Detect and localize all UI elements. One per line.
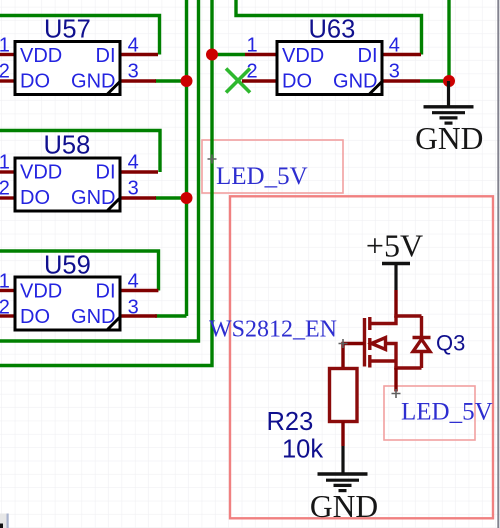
svg-text:VDD: VDD xyxy=(282,45,324,67)
svg-text:DI: DI xyxy=(96,45,116,67)
svg-text:R23: R23 xyxy=(267,408,314,436)
Q3 body diode xyxy=(420,316,423,338)
svg-text:U63: U63 xyxy=(309,16,356,44)
wire R23 to GND xyxy=(341,422,344,447)
svg-text:WS2812_EN: WS2812_EN xyxy=(209,317,337,343)
svg-text:3: 3 xyxy=(128,178,139,200)
Q3 channel segment top xyxy=(368,317,371,330)
svg-text:LED_5V: LED_5V xyxy=(216,163,308,190)
junction at U58 pin 3 xyxy=(181,192,193,204)
svg-text:1: 1 xyxy=(0,34,10,56)
svg-text:U58: U58 xyxy=(44,132,91,160)
wire U57 DI net, exits left edge, corner down to pin 4 xyxy=(0,16,160,55)
net label LED_5V top box xyxy=(202,140,343,193)
wire +5V to Q3 source xyxy=(394,290,397,318)
svg-text:1: 1 xyxy=(0,151,10,173)
wire vertical bus 2, corner exits left edge xyxy=(0,0,199,341)
U59 corner notch xyxy=(107,317,120,330)
svg-text:GND: GND xyxy=(71,306,115,328)
Q3 source terminal xyxy=(370,316,396,324)
IC U58 xyxy=(0,132,158,212)
svg-text:1: 1 xyxy=(247,35,258,57)
svg-text:2: 2 xyxy=(0,60,10,82)
svg-text:4: 4 xyxy=(128,152,139,174)
bottom-left UI fragment xyxy=(0,514,9,528)
wire Q3 gate to R23 xyxy=(343,344,365,369)
net label LED_5V bottom box and text xyxy=(384,386,493,440)
power symbol +5V xyxy=(366,228,423,291)
Q3 top bar to body diode xyxy=(394,314,421,317)
svg-text:3: 3 xyxy=(128,297,139,319)
IC U57 xyxy=(0,16,158,95)
svg-text:GND: GND xyxy=(415,121,483,156)
svg-text:DO: DO xyxy=(20,306,50,328)
svg-text:4: 4 xyxy=(128,35,139,57)
U63 pin 1 stub xyxy=(245,53,277,56)
svg-text:4: 4 xyxy=(389,35,400,57)
svg-text:U59: U59 xyxy=(44,252,91,280)
svg-text:GND: GND xyxy=(310,489,378,524)
U59 body xyxy=(15,277,120,330)
svg-text:3: 3 xyxy=(128,61,139,83)
U59 pin 4 stub xyxy=(120,289,158,292)
Q3 gate bar xyxy=(363,318,366,367)
U63 pin 3 stub xyxy=(382,79,420,82)
Q3 channel segment bottom xyxy=(368,355,371,368)
junction at U63 pin 1 bus xyxy=(206,49,218,61)
U57 pin 1 stub xyxy=(0,53,15,56)
U58 pin 1 stub xyxy=(0,170,15,173)
ground symbol top at U63 xyxy=(424,81,474,123)
wire U63 pin 1 to bus 3 xyxy=(212,53,245,56)
svg-text:+5V: +5V xyxy=(366,228,423,264)
svg-text:10k: 10k xyxy=(282,436,323,464)
svg-text:1: 1 xyxy=(0,270,10,292)
U63 pin 2 stub xyxy=(242,79,277,82)
U57 corner notch xyxy=(107,82,120,95)
svg-text:U57: U57 xyxy=(44,16,91,44)
U57 pin 3 stub xyxy=(120,79,156,82)
wire U58 DI net, exits left edge, corner down to pin 4 xyxy=(0,131,160,173)
svg-text:4: 4 xyxy=(128,271,139,293)
U63 pin 4 stub xyxy=(382,53,421,56)
svg-text:2: 2 xyxy=(247,61,258,83)
svg-text:GND: GND xyxy=(333,71,377,93)
no-connect X on U63 pin 2 xyxy=(226,69,250,93)
Q3 body terminal with arrow xyxy=(372,344,397,370)
Q3 drain terminal xyxy=(370,359,396,362)
Q3 bottom bar to body diode xyxy=(394,366,421,369)
U63 corner notch xyxy=(369,82,382,95)
U59 pin 2 stub xyxy=(0,314,15,317)
svg-text:GND: GND xyxy=(71,71,115,93)
wire U58 pin 3 to GND bus xyxy=(155,196,187,199)
selection rectangle xyxy=(230,196,493,518)
svg-text:LED_5V: LED_5V xyxy=(401,399,493,426)
wire vertical GND bus xyxy=(185,0,188,316)
U58 body xyxy=(15,158,120,211)
svg-text:DI: DI xyxy=(96,281,116,303)
net label LED_5V top anchor and text xyxy=(208,155,308,191)
svg-text:DI: DI xyxy=(358,45,378,67)
U57 pin 2 stub xyxy=(0,79,15,82)
U58 corner notch xyxy=(107,198,120,211)
wire U63 DI net, up from pin 4 and across to top edge xyxy=(236,0,422,55)
IC U63 xyxy=(242,16,421,95)
wire Q3 drain to LED_5V xyxy=(394,368,397,392)
svg-text:Q3: Q3 xyxy=(436,331,465,356)
U58 pin 2 stub xyxy=(0,196,15,199)
U63 body xyxy=(277,42,382,95)
svg-text:DO: DO xyxy=(282,71,312,93)
svg-text:GND: GND xyxy=(71,187,115,209)
transistor Q3 PMOS xyxy=(365,316,431,370)
U59 pin 3 stub xyxy=(120,314,157,317)
svg-text:3: 3 xyxy=(389,61,400,83)
U58 pin 4 stub xyxy=(120,170,158,173)
svg-text:2: 2 xyxy=(0,296,10,318)
U57 body xyxy=(15,42,120,95)
svg-text:VDD: VDD xyxy=(20,162,62,184)
wire U63 pin 3 to GND junction xyxy=(420,79,449,82)
wire vertical bus 3, corner exits left edge xyxy=(0,0,212,366)
Q3 channel segment middle xyxy=(368,338,371,350)
svg-text:2: 2 xyxy=(0,177,10,199)
svg-text:VDD: VDD xyxy=(20,281,62,303)
svg-text:VDD: VDD xyxy=(20,45,62,67)
junction at U63 pin 3 GND xyxy=(443,75,455,87)
net label anchor WS2812_EN xyxy=(339,339,348,348)
svg-text:DI: DI xyxy=(96,162,116,184)
wire GND net vertical from top edge xyxy=(447,0,450,81)
wire U59 DI net, exits left edge, corner down to pin 4 xyxy=(0,251,159,291)
U57 pin 4 stub xyxy=(120,53,158,56)
resistor R23 xyxy=(330,369,358,422)
net label anchor LED_5V bottom xyxy=(392,389,401,398)
junction at U57 pin 3 xyxy=(181,75,193,87)
wire U57 pin 3 to GND bus xyxy=(155,79,187,82)
IC U59 xyxy=(0,252,158,331)
svg-text:DO: DO xyxy=(20,71,50,93)
canvas right edge line xyxy=(497,0,499,528)
ground symbol bottom at R23 xyxy=(318,446,368,491)
svg-text:DO: DO xyxy=(20,187,50,209)
U59 pin 1 stub xyxy=(0,289,15,292)
U58 pin 3 stub xyxy=(120,196,156,199)
wire U59 pin 3 to GND bus xyxy=(155,314,187,317)
